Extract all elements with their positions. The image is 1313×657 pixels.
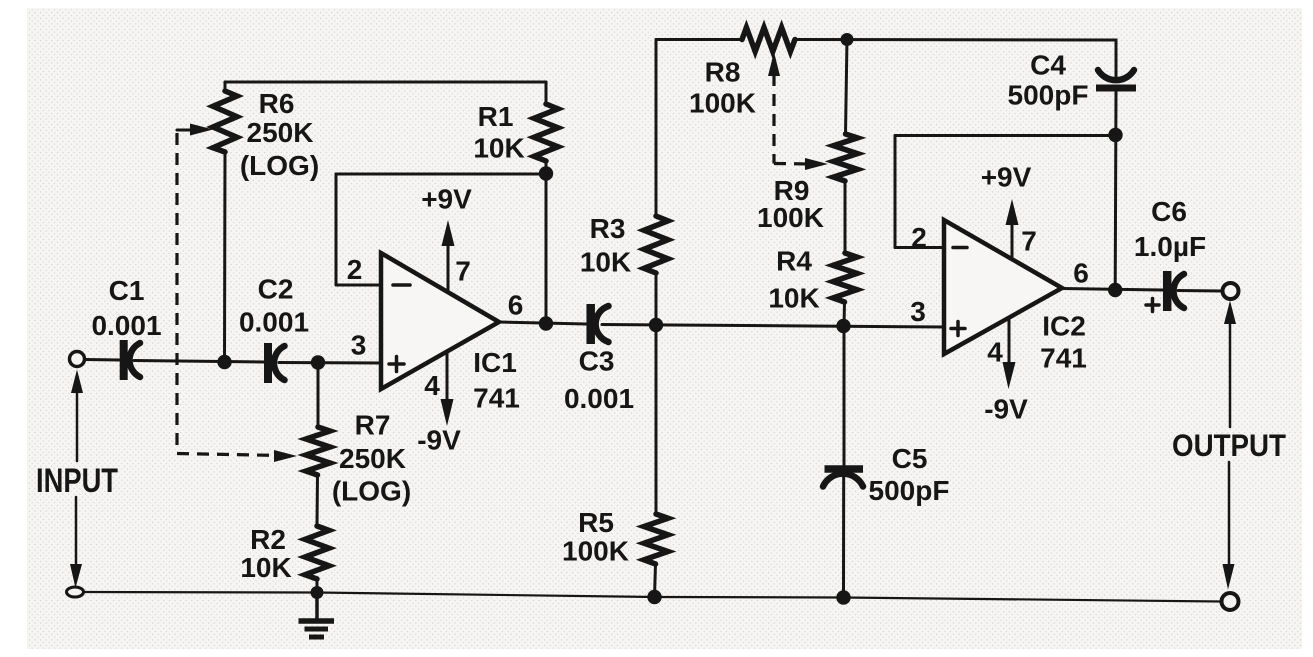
svg-text:R8: R8 bbox=[705, 57, 741, 88]
capacitor C4 straight plate bbox=[1096, 85, 1136, 92]
capacitor C6 straight plate bbox=[1163, 271, 1172, 311]
dashed wiper link R6 to R7 vertical bbox=[175, 133, 178, 452]
wire R4 to signal node bbox=[843, 302, 847, 326]
-9V arrow IC1 bbox=[446, 352, 449, 401]
op-amp IC1 plus sign bbox=[389, 357, 404, 372]
wire R5 to bottom bus bbox=[655, 564, 656, 597]
capacitor C2 curved plate bbox=[274, 346, 285, 380]
wire IC2 pin 2 stub bbox=[895, 246, 946, 249]
svg-text:0.001: 0.001 bbox=[239, 307, 309, 338]
wire C3 to IC2 pin 3 bbox=[602, 325, 946, 328]
svg-text:3: 3 bbox=[910, 296, 926, 327]
OUTPUT dimension arrow up bbox=[1229, 322, 1232, 427]
capacitor C4 curved plate bbox=[1098, 70, 1134, 80]
svg-text:741: 741 bbox=[1040, 343, 1087, 374]
svg-text:C2: C2 bbox=[258, 274, 294, 305]
wire signal node down to C5 bbox=[843, 326, 846, 465]
svg-text:2: 2 bbox=[347, 254, 363, 285]
svg-text:6: 6 bbox=[1073, 258, 1089, 289]
wire R1 column upper stub bbox=[545, 82, 548, 104]
terminal input top bbox=[70, 352, 85, 367]
wiper arrow R6 bbox=[177, 129, 196, 132]
svg-text:-9V: -9V bbox=[984, 394, 1028, 425]
node IC2 output junction bbox=[1108, 283, 1122, 297]
svg-text:10K: 10K bbox=[580, 247, 631, 278]
svg-text:INPUT: INPUT bbox=[36, 462, 118, 500]
wire R7 column top bbox=[317, 363, 320, 428]
-9V arrow IC2 bbox=[1008, 318, 1011, 364]
potentiometer R7 250K zigzag bbox=[306, 427, 330, 475]
wire R2 to bottom bus bbox=[316, 579, 319, 593]
wiper arrow R8 bbox=[768, 52, 780, 76]
resistor R3 10K zigzag bbox=[644, 216, 668, 273]
dashed wiper link R6 to R7 horizontal bbox=[177, 454, 281, 456]
svg-text:R6: R6 bbox=[259, 88, 295, 119]
svg-text:100K: 100K bbox=[562, 536, 629, 567]
capacitor C3 curved plate bbox=[596, 306, 609, 342]
wire R6 column lower to signal line bbox=[223, 152, 227, 362]
svg-text:IC2: IC2 bbox=[1042, 311, 1086, 342]
wire IC1 output to C3 bbox=[499, 322, 587, 324]
wire R7 to R2 bbox=[316, 475, 320, 526]
svg-text:-9V: -9V bbox=[417, 425, 461, 456]
op-amp IC2 minus sign bbox=[953, 246, 967, 250]
svg-text:741: 741 bbox=[473, 383, 520, 414]
op-amp IC2 plus sign bbox=[951, 322, 965, 336]
wire IC1 pin 2 stub bbox=[336, 284, 383, 287]
capacitor C2 straight plate bbox=[264, 343, 272, 383]
node junction R2 bottom bbox=[311, 586, 324, 599]
dashed wiper link R8 to R9 vertical bbox=[772, 74, 775, 164]
capacitor C1 straight plate bbox=[120, 340, 128, 380]
svg-text:500pF: 500pF bbox=[1008, 80, 1089, 111]
resistor R4 10K zigzag bbox=[833, 253, 857, 302]
svg-text:C1: C1 bbox=[109, 275, 145, 306]
wiper arrow R9 bbox=[805, 158, 828, 170]
wire R6 column upper stub bbox=[224, 82, 227, 91]
capacitor C3 straight plate bbox=[586, 304, 595, 344]
OUTPUT dimension arrow down bbox=[1228, 462, 1231, 566]
op-amp IC1 triangle bbox=[381, 253, 499, 389]
svg-text:7: 7 bbox=[455, 256, 471, 287]
svg-text:4: 4 bbox=[987, 337, 1003, 368]
resistor R2 10K zigzag bbox=[305, 526, 329, 579]
svg-text:+9V: +9V bbox=[981, 162, 1032, 193]
svg-text:10K: 10K bbox=[473, 133, 524, 164]
svg-text:+9V: +9V bbox=[421, 184, 472, 215]
potentiometer R8 100K zigzag bbox=[742, 28, 795, 52]
wire bottom bus bbox=[84, 592, 1222, 602]
wire R9 column top stub bbox=[846, 40, 848, 135]
svg-text:R1: R1 bbox=[478, 101, 514, 132]
capacitor C5 curved plate bbox=[823, 474, 863, 487]
svg-text:OUTPUT: OUTPUT bbox=[1172, 427, 1286, 463]
dashed wiper link R8 to R9 horizontal bbox=[774, 162, 812, 166]
svg-text:4: 4 bbox=[424, 370, 440, 401]
svg-text:10K: 10K bbox=[240, 552, 291, 583]
node IC1 feedback junction bbox=[539, 166, 553, 180]
node junction R4 bottom signal bbox=[836, 319, 850, 333]
wire C2 to IC1 pin 3 bbox=[279, 361, 383, 365]
wire IC2 feedback left vertical bbox=[894, 136, 897, 248]
svg-text:R3: R3 bbox=[590, 213, 626, 244]
node junction C5 bottom bbox=[836, 590, 850, 604]
wire R6 top horizontal to R1 bbox=[225, 81, 546, 84]
potentiometer R9 100K zigzag bbox=[834, 134, 858, 181]
capacitor C6 curved plate bbox=[1173, 274, 1184, 308]
INPUT dimension arrow up bbox=[76, 390, 79, 461]
wire R3 column top bbox=[655, 40, 658, 217]
svg-text:C5: C5 bbox=[892, 443, 928, 474]
svg-text:250K: 250K bbox=[339, 443, 406, 474]
wire IC2 output to C6 bbox=[1062, 289, 1164, 291]
terminal output bottom bbox=[1222, 593, 1239, 610]
svg-text:0.001: 0.001 bbox=[91, 310, 161, 341]
capacitor C1 curved plate bbox=[129, 343, 140, 377]
+9V arrow IC1 bbox=[447, 243, 450, 292]
op-amp IC1 minus sign bbox=[393, 283, 410, 287]
ground stub bbox=[315, 593, 319, 619]
op-amp IC2 triangle bbox=[944, 220, 1062, 354]
node junction R6 bottom bbox=[217, 355, 231, 369]
terminal output top bbox=[1223, 283, 1239, 299]
svg-text:100K: 100K bbox=[689, 88, 756, 119]
wire C5 to bottom bus bbox=[842, 473, 845, 598]
svg-text:R4: R4 bbox=[776, 246, 812, 277]
svg-text:500pF: 500pF bbox=[869, 475, 950, 506]
svg-text:(LOG): (LOG) bbox=[332, 476, 411, 507]
node junction R5 bottom bbox=[647, 590, 661, 604]
svg-text:R2: R2 bbox=[250, 524, 286, 555]
wire IC2 feedback top bbox=[895, 134, 1115, 137]
node junction R3 column signal bbox=[649, 318, 663, 332]
node junction top of R9 column bbox=[841, 33, 854, 46]
wire C4 down to IC2 output node bbox=[1114, 92, 1118, 291]
wire IC1 feedback top bbox=[336, 173, 546, 176]
svg-text:IC1: IC1 bbox=[473, 347, 517, 378]
svg-text:C4: C4 bbox=[1030, 50, 1066, 81]
svg-text:C3: C3 bbox=[579, 346, 615, 377]
svg-text:1.0µF: 1.0µF bbox=[1134, 231, 1206, 262]
wire C1 to C2 bbox=[134, 361, 264, 363]
wire input to C1 bbox=[85, 358, 120, 362]
svg-text:7: 7 bbox=[1021, 226, 1037, 257]
potentiometer R6 250K zigzag bbox=[213, 91, 237, 152]
wire top bus right segment to C4 corner bbox=[795, 40, 1116, 80]
svg-text:3: 3 bbox=[351, 330, 367, 361]
ground bars bbox=[299, 618, 335, 624]
svg-text:R5: R5 bbox=[578, 507, 614, 538]
svg-text:10K: 10K bbox=[768, 283, 819, 314]
resistor R1 10K zigzag bbox=[534, 104, 558, 161]
wiper arrow R7 bbox=[274, 450, 297, 462]
node IC2 feedback junction bbox=[1108, 128, 1122, 142]
wire R9 to R4 bbox=[844, 181, 847, 253]
svg-text:0.001: 0.001 bbox=[564, 383, 634, 414]
INPUT dimension arrow down bbox=[75, 497, 78, 567]
resistor R5 100K zigzag bbox=[644, 514, 668, 564]
wire R3 to R5 bbox=[655, 273, 658, 514]
terminal input bottom bbox=[67, 587, 84, 597]
node junction R7 top bbox=[311, 355, 325, 369]
plus sign of C6 polarity bbox=[1146, 299, 1159, 312]
capacitor C5 straight plate bbox=[825, 465, 864, 473]
svg-text:6: 6 bbox=[508, 290, 524, 321]
svg-text:C6: C6 bbox=[1151, 196, 1187, 227]
svg-text:250K: 250K bbox=[247, 117, 314, 148]
wire top bus left segment bbox=[656, 38, 742, 41]
svg-text:(LOG): (LOG) bbox=[240, 150, 319, 181]
+9V arrow IC2 bbox=[1011, 223, 1014, 259]
wire IC1 feedback left vertical bbox=[335, 174, 338, 285]
node IC1 output junction bbox=[539, 316, 553, 330]
svg-text:2: 2 bbox=[911, 222, 927, 253]
svg-text:R7: R7 bbox=[355, 410, 391, 441]
wire R1 column lower to output node bbox=[545, 161, 548, 324]
wire C6 to output terminal bbox=[1178, 289, 1222, 293]
svg-text:100K: 100K bbox=[757, 202, 824, 233]
